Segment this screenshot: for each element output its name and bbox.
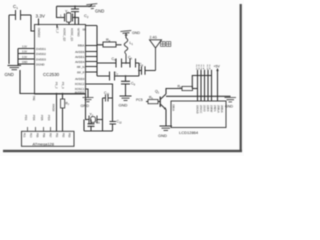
capacitor C7 [110, 72, 119, 81]
svg-text:PB7: PB7 [49, 133, 52, 138]
wire right bus [96, 26, 98, 77]
svg-text:ATmega128: ATmega128 [33, 141, 55, 146]
resistor R4 (RBIAS) [86, 26, 122, 48]
pin XOSC1 wire to ground [86, 89, 89, 98]
wire crystal right lead [73, 18, 79, 25]
IC U2 ATmega128 [22, 131, 75, 146]
op-amp U1 CC2530 [35, 25, 87, 95]
inductor L1 [124, 34, 133, 64]
svg-text:CC2530: CC2530 [43, 72, 60, 77]
svg-text:RBIA: RBIA [78, 43, 85, 47]
pin DVDD2 (left) [18, 51, 46, 57]
svg-text:XOSC_Q1: XOSC_Q1 [70, 28, 74, 42]
crystal Y2 [89, 113, 97, 124]
capacitor C8 [139, 62, 145, 75]
svg-text:3.3V: 3.3V [22, 46, 27, 49]
svg-text:PD1: PD1 [24, 115, 28, 121]
svg-text:PB2: PB2 [62, 133, 65, 138]
net label PD6 [32, 115, 36, 131]
wire LCD data lines [198, 70, 212, 101]
wire C1 left to GND [8, 15, 10, 64]
svg-text:PB5: PB5 [36, 133, 39, 138]
capacitor C11 [88, 120, 101, 132]
svg-text:GND: GND [5, 72, 14, 77]
wire Y2 right lead [97, 119, 103, 121]
svg-text:GND: GND [81, 104, 90, 108]
capacitor C9 (shunt) [121, 75, 136, 96]
svg-text:2.4G: 2.4G [150, 36, 158, 40]
ground (32k block) [81, 98, 94, 109]
svg-text:PB6: PB6 [42, 133, 45, 138]
IC U3 LCD12864 [171, 101, 226, 128]
svg-text:GND: GND [132, 31, 140, 35]
ground (below Q1) [158, 126, 172, 138]
svg-text:GND: GND [95, 9, 104, 14]
svg-text:GND: GND [119, 103, 128, 108]
svg-text:DB0A: DB0A [171, 105, 174, 112]
wire RF bottom [97, 63, 139, 76]
wire ground rail (right) [166, 95, 231, 97]
svg-text:DVDD2: DVDD2 [37, 28, 41, 38]
wire 32k bottom [84, 120, 113, 132]
resistor R5 [146, 96, 160, 104]
svg-text:+5V: +5V [214, 65, 221, 69]
wire ground to bottom bus [20, 70, 35, 94]
svg-text:PD3: PD3 [47, 115, 51, 121]
net labels above LCD wires [196, 65, 211, 71]
pin XOSC2 wire [86, 84, 113, 98]
power +5V [214, 65, 221, 102]
capacitor C12 [110, 98, 123, 131]
svg-text:AVDD1: AVDD1 [75, 55, 85, 59]
wire U1 bottom bus [35, 93, 86, 95]
svg-text:LCD12864: LCD12864 [179, 130, 199, 135]
svg-text:2324 25: 2324 25 [196, 67, 211, 70]
ground (right of LCD) [225, 98, 237, 109]
svg-text:GND: GND [158, 133, 167, 138]
node 3.3V [36, 14, 46, 26]
svg-text:TAE: TAE [32, 96, 36, 101]
svg-text:RF_P: RF_P [77, 70, 84, 74]
svg-text:DVDD2: DVDD2 [36, 52, 46, 56]
svg-text:P2_2: P2_2 [56, 27, 60, 34]
svg-text:AVDD0: AVDD0 [75, 77, 85, 81]
svg-text:PE0: PE0 [29, 133, 32, 138]
ground (below C9) [119, 96, 132, 108]
wire crystal pins to U1 top [57, 22, 69, 28]
antenna ANT [150, 36, 162, 71]
ground (left of U1) [5, 66, 22, 78]
capacitor C10 [103, 91, 113, 102]
wire C1 right into U1 left edge [31, 15, 35, 31]
net label PD5 [40, 115, 44, 131]
svg-text:DVDD1: DVDD1 [36, 47, 46, 51]
svg-text:PD6: PD6 [32, 115, 36, 121]
svg-text:DVDD3: DVDD3 [36, 58, 46, 62]
pin DVDD3 (left) [18, 56, 46, 62]
crystal Y1 [60, 10, 76, 23]
net label PD1 [24, 115, 28, 131]
wire antenna feed [139, 70, 156, 72]
net label PD3 [47, 115, 51, 131]
transistor Q1 [155, 90, 166, 110]
pin labels right side of U1 [75, 43, 85, 94]
svg-text:PC5: PC5 [136, 98, 143, 102]
svg-text:3.3V: 3.3V [22, 56, 27, 59]
capacitor C1 [9, 4, 31, 20]
wire crystal left lead [57, 6, 65, 17]
wire R6 branch up [192, 76, 211, 89]
svg-text:P0_3: P0_3 [61, 82, 65, 89]
svg-text:PB3: PB3 [68, 133, 71, 138]
wire left pin bus [17, 49, 19, 66]
resistor R7 on P0_3 wire [61, 93, 70, 132]
svg-text:AVDD6: AVDD6 [75, 50, 85, 54]
svg-text:DGND: DGND [36, 63, 45, 67]
svg-text:3.3V: 3.3V [22, 51, 27, 54]
wire P0_2 down to MCU [52, 93, 58, 132]
svg-text:08: 08 [83, 28, 87, 32]
svg-text:XOSC_Q2: XOSC_Q2 [63, 28, 67, 42]
pin DVDD1 (left) [18, 46, 46, 52]
antenna label (CJK blobs) [161, 42, 171, 47]
resistor R6 [178, 85, 198, 91]
svg-text:PE1: PE1 [23, 133, 26, 138]
ground (above L1) [120, 31, 140, 36]
svg-text:GND: GND [22, 61, 28, 64]
wire top rail to ground [57, 5, 93, 7]
svg-text:XOSC2: XOSC2 [75, 82, 85, 86]
bottom pin texts of U1 [55, 82, 66, 89]
svg-text:PB1: PB1 [55, 133, 58, 138]
wire Q1 emitter to ground [165, 110, 167, 127]
svg-text:RF_N: RF_N [77, 65, 85, 69]
svg-text:AVDD4: AVDD4 [75, 60, 85, 64]
capacitor C5 [112, 57, 122, 68]
svg-text:3.3V: 3.3V [36, 14, 46, 19]
wire AVDD stubs to bus [86, 46, 98, 73]
wire 32k right branch [102, 98, 104, 131]
svg-text:PD5: PD5 [40, 115, 44, 121]
capacitor C6 [128, 56, 136, 68]
ground (top middle) [86, 4, 97, 10]
pin DGND (left) [18, 61, 45, 67]
svg-text:P0_2: P0_2 [55, 82, 59, 89]
capacitor C2 [71, 5, 89, 24]
svg-text:RXD0: RXD0 [52, 104, 56, 112]
wire to crystal Y2 [86, 94, 90, 120]
wire Q1 collector [166, 89, 182, 95]
wire RF top [97, 62, 139, 64]
svg-text:WTRO: WTRO [77, 28, 81, 37]
